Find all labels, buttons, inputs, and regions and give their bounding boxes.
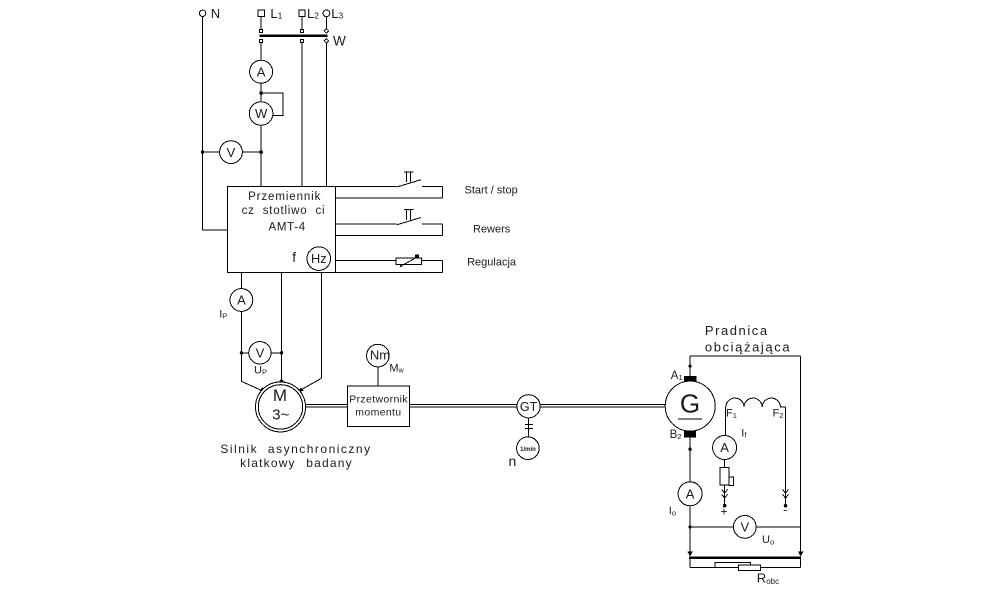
svg-text:W: W [255, 106, 268, 121]
svg-text:M: M [273, 386, 287, 405]
svg-text:GT: GT [520, 400, 538, 414]
svg-text:A: A [720, 440, 729, 455]
svg-text:3~: 3~ [272, 406, 289, 423]
svg-text:V: V [256, 346, 265, 361]
svg-text:V: V [740, 520, 749, 535]
svg-text:N: N [211, 6, 220, 21]
svg-text:Silnik asynchroniczny: Silnik asynchroniczny [220, 442, 371, 456]
svg-text:f: f [292, 250, 296, 265]
svg-text:V: V [227, 145, 236, 160]
svg-text:G: G [680, 388, 700, 418]
svg-text:Nm: Nm [370, 348, 390, 363]
svg-text:-: - [783, 503, 787, 517]
svg-text:Regulacja: Regulacja [467, 257, 517, 269]
svg-text:A: A [257, 64, 266, 79]
svg-text:n: n [509, 453, 517, 469]
svg-text:W: W [333, 33, 346, 48]
svg-text:klatkowy badany: klatkowy badany [240, 456, 353, 470]
svg-text:Hz: Hz [311, 251, 327, 266]
svg-text:momentu: momentu [355, 406, 401, 418]
svg-text:Przetwornik: Przetwornik [349, 394, 408, 406]
svg-text:cz stotliwo ci: cz stotliwo ci [242, 205, 326, 217]
svg-text:obciążająca: obciążająca [705, 340, 791, 355]
svg-text:Rewers: Rewers [473, 224, 511, 236]
svg-text:A: A [237, 293, 246, 308]
svg-text:A: A [686, 487, 695, 502]
svg-text:Przemiennik: Przemiennik [248, 191, 321, 203]
svg-text:AMT-4: AMT-4 [269, 222, 306, 234]
svg-text:Pradnica: Pradnica [705, 323, 769, 338]
svg-text:+: + [720, 505, 727, 519]
svg-text:1/min: 1/min [520, 447, 536, 453]
svg-text:Start / stop: Start / stop [465, 184, 518, 196]
